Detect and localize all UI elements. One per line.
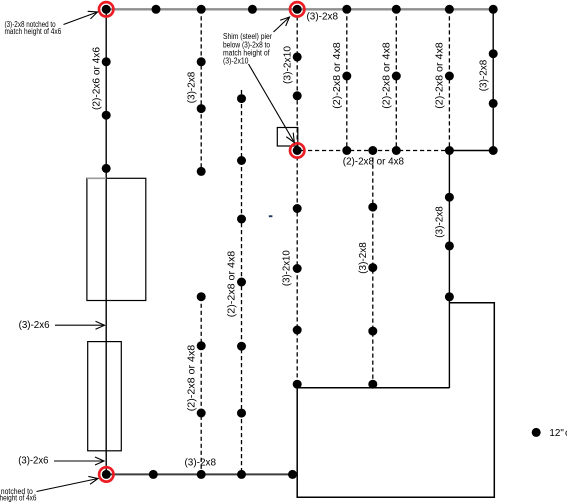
beam V9 right solid (3)-2x8 — [492, 9, 494, 150]
house footprint outline bottom-right — [297, 303, 494, 498]
annotation arrow shim to top circle — [274, 17, 290, 32]
svg-text:(3)-2x8: (3)-2x8 — [435, 206, 446, 238]
V4 pier dots — [293, 52, 302, 388]
annotation arrow shim to middle circle — [249, 64, 295, 143]
beam V4 dashed (3)-2x10 — [296, 9, 298, 384]
svg-text:(3)-2x10: (3)-2x10 — [282, 250, 293, 286]
shim steel pier square — [277, 128, 298, 147]
V2 pier dots — [197, 57, 206, 417]
V6 pier dots — [368, 203, 377, 389]
svg-text:(3)-2x8: (3)-2x8 — [186, 71, 197, 103]
beam V2 upper dashed (3)-2x8 — [200, 9, 202, 171]
svg-text:(3)-2x6: (3)-2x6 — [19, 320, 50, 331]
stair opening rectangle R1 — [87, 178, 146, 300]
beam V1 (2)-2x6 or 4x6 — [105, 9, 107, 474]
red circle marker middle — [290, 143, 304, 157]
beam V2 lower dashed (2)-2x8 or 4x8 — [200, 297, 202, 475]
svg-text:(3)-2x6: (3)-2x6 — [18, 456, 49, 467]
svg-text:12": 12" — [549, 428, 564, 439]
beam H2 dashed middle (2)-2x8 or 4x8 — [301, 150, 449, 152]
label notched bottom-left — [0, 487, 37, 502]
beam V6 dashed (3)-2x8 — [372, 151, 374, 385]
R1 gray top-left segment — [87, 177, 106, 179]
annotation arrow bottom-left (3)-2x6 — [54, 460, 104, 462]
svg-text:(2)-2x8 or 4x8: (2)-2x8 or 4x8 — [227, 250, 238, 317]
svg-text:(3)-2x8: (3)-2x8 — [307, 11, 339, 22]
svg-text:match height of 4x6: match height of 4x6 — [5, 27, 62, 36]
svg-text:(2)-2x8 or 4x8: (2)-2x8 or 4x8 — [382, 42, 393, 109]
red circle marker top-right — [290, 2, 304, 16]
V1 pier dots — [102, 57, 111, 173]
svg-text:(3)-2x10: (3)-2x10 — [282, 46, 293, 84]
beam V5 dashed (2)-2x8 or 4x8 — [346, 9, 348, 150]
beam V3 dashed (2)-2x8 or 4x8 — [241, 90, 243, 474]
stair opening rectangle R2 — [88, 342, 122, 451]
V9 pier dots — [489, 49, 498, 108]
red circle marker bottom-left — [99, 467, 113, 481]
V7 pier dot — [392, 72, 401, 81]
beam H1 top girder — [105, 8, 494, 10]
legend pier dot 12" — [532, 428, 541, 437]
annotation arrow mid-left (3)-2x6 — [55, 324, 105, 326]
beam V8 upper dashed (2)-2x8 or 4x8 — [448, 9, 450, 150]
V8 pier dots — [445, 72, 454, 302]
bottom beam pier dots — [102, 470, 297, 479]
svg-text:(3)-2x8: (3)-2x8 — [358, 242, 369, 274]
beam H3 bottom girder — [106, 473, 294, 475]
svg-text:(2)-2x6 or 4x6: (2)-2x6 or 4x6 — [91, 47, 102, 110]
red circle marker top-left — [99, 2, 113, 16]
beam H2 solid right part — [449, 150, 493, 152]
label shim steel pier — [223, 32, 272, 65]
svg-text:(2)-2x8 or 4x8: (2)-2x8 or 4x8 — [435, 42, 446, 109]
H2 pier dots — [342, 146, 497, 155]
annotation arrow bottom notched — [37, 479, 99, 492]
svg-text:(3)-2x8: (3)-2x8 — [478, 59, 489, 91]
V3 pier dots — [237, 94, 246, 418]
svg-text:(3)-2x10: (3)-2x10 — [223, 57, 249, 66]
svg-text:(2)-2x8 or 4x8: (2)-2x8 or 4x8 — [343, 157, 405, 168]
beam V7 dashed (2)-2x8 or 4x8 — [395, 9, 397, 150]
beam V8 lower solid (3)-2x8 — [448, 151, 450, 389]
stray dash mark — [269, 215, 273, 217]
svg-text:(2)-2x8 or 4x8: (2)-2x8 or 4x8 — [332, 42, 343, 109]
top beam pier dots — [102, 5, 498, 14]
svg-text:height of 4x6: height of 4x6 — [0, 494, 37, 503]
svg-text:(2)-2x8 or 4x8: (2)-2x8 or 4x8 — [186, 344, 197, 411]
annotation arrow top-left — [64, 12, 98, 25]
svg-text:(3)-2x8: (3)-2x8 — [185, 458, 217, 469]
V5 pier dot — [342, 72, 351, 81]
label notched top-left — [5, 20, 62, 36]
